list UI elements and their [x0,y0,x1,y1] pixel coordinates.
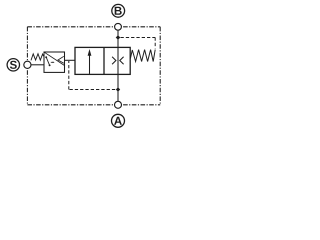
port S circle [7,59,19,71]
valve position divider [103,47,105,74]
poppet chevron right [120,57,124,65]
switch contact dot 2 [49,64,51,66]
actuation chevron pointing into switch [58,56,64,63]
switch lever [46,57,49,65]
port S letter [10,61,17,69]
right position seat line [117,47,119,74]
pilot junction diamond on A line [116,87,120,91]
wire node S to switch box [31,64,44,66]
node S on border [24,61,31,68]
pilot dashed vertical down to spring end [154,38,156,49]
pilot dashed from A junction to switch line [69,89,115,91]
pilot dashed line to spring side [121,37,156,39]
wire B to valve [117,30,119,47]
port B letter [115,7,122,15]
wire valve to node A [117,74,119,101]
wire switch box to valve [65,59,76,61]
port A circle [112,114,125,127]
node A on border [115,101,122,108]
switch actuation diagonal [44,52,64,65]
node B (open circle on border) [115,23,122,30]
switch spring zigzag [31,54,44,61]
spring right of valve [130,50,155,62]
left position flow arrow [89,55,91,74]
port B circle [112,4,125,17]
enclosure dash-dot border [27,27,160,105]
poppet chevron left [112,57,116,65]
pressure switch box [44,52,65,72]
valve body [75,47,130,74]
switch contact dot 1 [45,56,47,58]
port A letter [114,117,122,125]
pilot tap junction diamond on B line [116,35,121,40]
switch tiny arrow [51,61,53,63]
